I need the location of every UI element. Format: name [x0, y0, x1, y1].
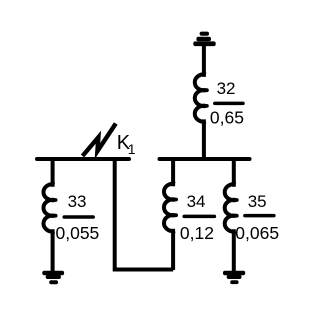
- svg-text:34: 34: [187, 192, 206, 211]
- svg-text:0,12: 0,12: [180, 223, 214, 243]
- fault symbol K1 (lightning bolt): [83, 124, 116, 157]
- ground (bottom left): [42, 271, 64, 285]
- svg-text:0,65: 0,65: [210, 107, 244, 127]
- value label 32/0,65: [210, 79, 244, 127]
- ground (top, inverted): [193, 32, 215, 47]
- wire: right bus: [160, 157, 250, 161]
- inductor 32: [195, 44, 206, 161]
- svg-text:32: 32: [217, 79, 236, 98]
- svg-text:0,065: 0,065: [235, 223, 279, 243]
- value label 35/0,065: [235, 192, 279, 243]
- inductor 34: [164, 158, 175, 270]
- svg-text:33: 33: [68, 192, 87, 211]
- inductor 35: [225, 158, 236, 272]
- wire: left bus: [37, 157, 129, 161]
- wire: bus drop + bottom connecting wire: [115, 158, 174, 270]
- inductor 33: [43, 158, 54, 272]
- value label 33/0,055: [56, 192, 100, 243]
- svg-text:0,055: 0,055: [56, 223, 100, 243]
- ground (bottom right): [223, 271, 245, 284]
- svg-text:1: 1: [128, 141, 136, 157]
- value label 34/0,12: [180, 192, 215, 243]
- label K1: [117, 132, 136, 157]
- svg-text:35: 35: [248, 192, 267, 211]
